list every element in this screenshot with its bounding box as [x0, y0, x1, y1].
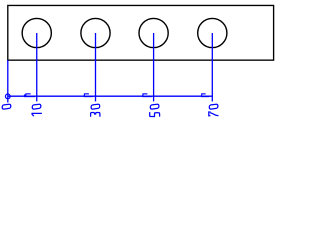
hole circle 1 — [22, 18, 51, 47]
label 70 — [209, 104, 219, 116]
label 30 — [91, 104, 100, 117]
label 50 — [150, 104, 160, 117]
extension line datum (left edge) — [7, 60, 9, 103]
datum origin circle marker — [5, 94, 10, 99]
hole circle 4 — [198, 18, 227, 47]
extension line hole 4 — [211, 33, 213, 101]
extension line hole 1 — [36, 33, 38, 101]
dimension tick 3 — [142, 93, 152, 97]
dimension tick 1 — [24, 93, 35, 97]
label 0 (datum) — [2, 104, 11, 109]
hole circle 3 — [139, 18, 168, 47]
dimension tick 4 — [201, 93, 209, 97]
extension line hole 2 — [95, 33, 97, 101]
label 10 — [32, 104, 42, 116]
dimension tick 2 — [84, 93, 93, 97]
dimension line — [8, 95, 213, 97]
extension line hole 3 — [153, 33, 155, 101]
plate outline rectangle — [8, 5, 274, 60]
hole circle 2 — [81, 18, 110, 47]
